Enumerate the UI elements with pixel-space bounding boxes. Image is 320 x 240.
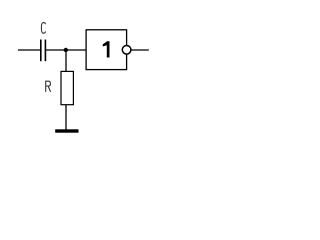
inverter gate box (IEC "1" buffer/NOT) [86,30,127,70]
wire: resistor to ground [65,105,67,130]
inverter output bubble [122,46,131,55]
wire: junction down to resistor [65,50,67,72]
wire: output segment [132,49,149,51]
resistor R body [61,71,73,104]
label C [41,23,45,34]
label R [46,81,51,92]
wire: capacitor to gate input [46,49,86,51]
wire: input left segment [18,49,40,51]
capacitor C right plate [44,40,46,62]
ground [55,129,78,132]
node junction dot [64,48,68,52]
gate label 1 [103,41,110,57]
capacitor C left plate [40,40,42,62]
